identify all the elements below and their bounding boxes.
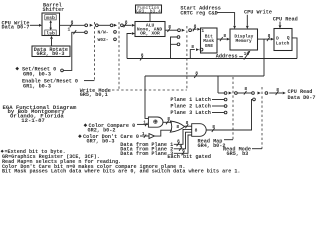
node: set/reset source circle: [61, 69, 64, 72]
node: contact after ESR switch: [95, 24, 98, 27]
wire: plane data riser to read switch: [217, 76, 219, 93]
label: Address bus with 16 tick: [216, 51, 250, 59]
svg-text:Latch: Latch: [276, 41, 290, 47]
wire: feedback bus (latched data, 8): [127, 53, 297, 61]
wire: data rotate count into barrel shifter: [50, 36, 53, 46]
switch wiper arrow (write mode mux): [114, 24, 117, 27]
svg-text:8: 8: [125, 20, 128, 26]
svg-text:8: 8: [212, 124, 215, 130]
wire: inverter output into OR gate: [155, 130, 173, 136]
Bit Mask box GR8: [201, 28, 218, 53]
label: Color Compare GR2 b0-2: [84, 123, 136, 134]
svg-text:8: 8: [194, 23, 197, 29]
svg-text:Data D0-7: Data D0-7: [288, 95, 316, 101]
Latch box (D Q): [274, 29, 292, 51]
gate: inverter on color don't care: [149, 134, 155, 139]
svg-text:GR8: GR8: [205, 43, 213, 49]
label: CPU Write Data D0-7 (top left): [2, 20, 30, 30]
svg-text:GR4, b0-2: GR4, b0-2: [198, 143, 226, 149]
wire: read line to CPU (8): [269, 87, 286, 95]
wire: into bit mask 1-input (8): [193, 23, 201, 31]
svg-text:CPU Write: CPU Write: [244, 9, 272, 15]
svg-text:8: 8: [268, 33, 271, 39]
label: Set/Reset 0 GR0 b0-3: [15, 66, 56, 77]
svg-text:1: 1: [201, 28, 204, 34]
node: switch contact from barrel shifter: [85, 24, 88, 27]
label: CPU Write (memory write strobe): [244, 9, 272, 15]
label+wire+node: Plane 2 Latch contact: [170, 104, 210, 110]
switch wiper arrow (read map switch): [229, 92, 232, 95]
node: contact after read map switch: [235, 92, 238, 95]
svg-text:8: 8: [167, 116, 170, 122]
barrel shifter box: [42, 13, 60, 36]
label: Enable Set/Reset GR1 b0-3: [22, 79, 78, 90]
label: CPU Read: [273, 17, 298, 23]
svg-text:8: 8: [276, 87, 279, 93]
wire: bit mask output to display memory (8): [217, 33, 230, 41]
wire: color compare into XNOR (1): [137, 119, 148, 126]
wire: feedback bus riser into ALU second input: [127, 32, 135, 58]
label: Each bit gated: [167, 154, 211, 160]
svg-text:Plane 1 Latch: Plane 1 Latch: [170, 97, 210, 103]
svg-text:msb: msb: [46, 15, 55, 21]
svg-text:Shifter: Shifter: [43, 7, 65, 13]
switch wiper arrow (enable set/reset mux): [90, 24, 93, 27]
gate: AND color compare result (8): [192, 124, 207, 137]
wire: latch Q output down to feedback bus: [292, 38, 297, 59]
label: Color Don't Care GR7 b0-3: [78, 134, 139, 144]
label+wire+node: Plane 1 Latch contact: [170, 97, 210, 103]
svg-text:GR1, b0-3: GR1, b0-3: [23, 83, 51, 89]
wire: plane data riser to comparator: [145, 76, 148, 118]
control dashed line: write mode (vertical #3): [186, 26, 188, 90]
wire: CPU write strobe into display memory: [246, 15, 249, 29]
svg-text:Each bit gated: Each bit gated: [167, 154, 211, 160]
svg-text:8: 8: [244, 86, 247, 92]
wire: OR output into AND gate (8): [185, 120, 192, 128]
svg-text:OR, XOR: OR, XOR: [140, 30, 160, 36]
node: read mode 1 contact (color compare result): [253, 98, 256, 101]
control dashed line: enable set/reset: [93, 22, 95, 81]
Data Rotate box GR3 b0-3: [32, 46, 70, 57]
wire: set/reset register feed, riser beside data rotate box: [64, 26, 85, 70]
svg-text:GR5, b0,1: GR5, b0,1: [80, 92, 108, 98]
node: contact read mode 0: [265, 92, 268, 95]
gate: XNOR comparator (8 bits): [148, 117, 163, 127]
node: ALU output contact: [178, 29, 181, 32]
node: write mode 2 alternate contact: [177, 43, 180, 46]
wire: start address into display memory: [217, 13, 237, 29]
node: contact into WM switch: [110, 24, 113, 27]
svg-text:Data from Plane 3: Data from Plane 3: [120, 151, 173, 157]
footnotes: [1, 149, 66, 155]
svg-text:8: 8: [176, 124, 179, 130]
svg-text:8: 8: [168, 24, 171, 30]
switch wiper arrow (post-ALU write mode switch): [182, 29, 185, 32]
msb cell: [45, 15, 56, 21]
wire: latch feedback to WM contacts: [171, 37, 178, 59]
svg-text:Plane 2 Latch: Plane 2 Latch: [170, 104, 210, 110]
svg-text:lsb: lsb: [46, 30, 55, 36]
wire: into ALU (8): [123, 20, 135, 28]
wire: CPU read strobe into latch: [279, 22, 282, 29]
wire: read line middle (8): [237, 86, 254, 95]
title block: [3, 104, 77, 124]
svg-text:8: 8: [195, 127, 198, 133]
svg-text:12-1-87: 12-1-87: [21, 117, 45, 124]
label+wire: Data from Plane 2 into AND (8): [120, 147, 173, 153]
svg-text:8: 8: [186, 120, 189, 126]
barrel shifter internal rotate arrow: [49, 20, 52, 30]
node: contact before bit mask: [189, 29, 192, 32]
node: read contact plane 0: [224, 92, 227, 95]
wire: address diagonal arrow into display memory: [239, 51, 250, 60]
svg-text:GR0, b0-3: GR0, b0-3: [23, 71, 51, 77]
label: CPU Read Data D0-7: [288, 89, 316, 101]
svg-text:8: 8: [191, 44, 194, 50]
switch wiper arrow (read mode switch): [258, 92, 261, 95]
svg-text:GR2, b0-2: GR2, b0-2: [88, 128, 116, 134]
svg-text:Q: Q: [287, 35, 290, 41]
wire: read line start: [218, 92, 224, 94]
wire: plane data line: [145, 70, 264, 78]
label: Barrel Shifter title: [43, 3, 65, 13]
svg-text:GR3, b0-3: GR3, b0-3: [37, 51, 65, 57]
svg-text:Bit Mask passes Latch data whe: Bit Mask passes Latch data where bits ar…: [2, 169, 240, 175]
svg-text:GR7, b0-3: GR7, b0-3: [87, 139, 115, 145]
wire: latch feedback into bit mask 0-input (8): [190, 44, 199, 59]
label+wire+node: Plane 3 Latch contact: [170, 110, 210, 116]
svg-text:GR5, b3: GR5, b3: [227, 151, 249, 157]
Function Select box GR3 b3,4: [136, 5, 162, 15]
label: Read Map GR4 b0-2 with hook to dashed: [198, 138, 226, 149]
label: Read Mode GR5 b3 with hook to dashed: [223, 147, 251, 157]
wire: between switch contacts: [98, 24, 110, 26]
Display Memory box: [230, 29, 258, 50]
label+node: N/W alternate contact: [98, 30, 109, 36]
svg-text:8: 8: [71, 20, 74, 26]
wire: CPU write data into barrel shifter: [30, 24, 42, 27]
label+node: W02 alternate contact: [98, 37, 109, 43]
label: Start Address CRTC reg C&D: [180, 5, 220, 16]
ALU box: [135, 22, 165, 37]
wire: XNOR output into OR gate: [163, 116, 172, 124]
svg-text:N/W-: N/W-: [98, 30, 109, 36]
svg-text:CRTC reg C&D: CRTC reg C&D: [180, 10, 217, 16]
control dashed line: read map select: [232, 77, 234, 140]
wire: function select to ALU: [149, 13, 151, 22]
svg-text:8: 8: [182, 148, 185, 154]
wire: color don't care into inverter (1): [140, 131, 149, 138]
svg-text:1: 1: [143, 119, 146, 125]
control dashed line: write mode (vertical #2): [118, 22, 120, 90]
wire: ALU output (8): [165, 24, 178, 32]
label+node: Set/Reset value contact: [85, 31, 88, 34]
svg-text:8: 8: [195, 70, 198, 76]
wire: display data tap down to plane data line: [263, 39, 265, 76]
svg-text:8: 8: [223, 33, 226, 39]
svg-text:D: D: [276, 35, 279, 41]
node: write mode 1 alternate contact: [177, 36, 180, 39]
label: Write Mode GR5,b0,1: [80, 88, 111, 98]
svg-text:GR3, b3,4: GR3, b3,4: [136, 9, 161, 15]
svg-text:Plane 3 Latch: Plane 3 Latch: [170, 110, 210, 116]
node: bit mask 0-input bubble: [200, 48, 203, 51]
lsb cell: [45, 30, 56, 36]
gate: OR combine (8): [170, 121, 184, 132]
control dashed line: write mode horizontal: [112, 89, 187, 91]
svg-text:Memory: Memory: [236, 38, 253, 44]
svg-text:CPU Read: CPU Read: [273, 17, 298, 23]
svg-text:1: 1: [68, 26, 71, 32]
svg-text:W02-: W02-: [98, 37, 109, 43]
wire: AND output to read mode contact (8): [206, 99, 252, 132]
node: contact before ALU: [121, 24, 124, 27]
wire: barrel shifter output bus (8): [60, 20, 85, 28]
svg-text:1: 1: [142, 131, 145, 137]
label+wire: Data from Plane 3 into AND (8): [120, 151, 173, 157]
svg-text:Data D0-7: Data D0-7: [2, 25, 30, 31]
control dashed line: read mode select: [261, 87, 263, 149]
wire: enable set/reset label lead: [84, 80, 94, 82]
svg-text:8: 8: [141, 53, 144, 59]
wire: display memory output to latch (8): [258, 33, 275, 41]
label+wire: Data from Plane 1 into AND (8): [120, 142, 173, 148]
